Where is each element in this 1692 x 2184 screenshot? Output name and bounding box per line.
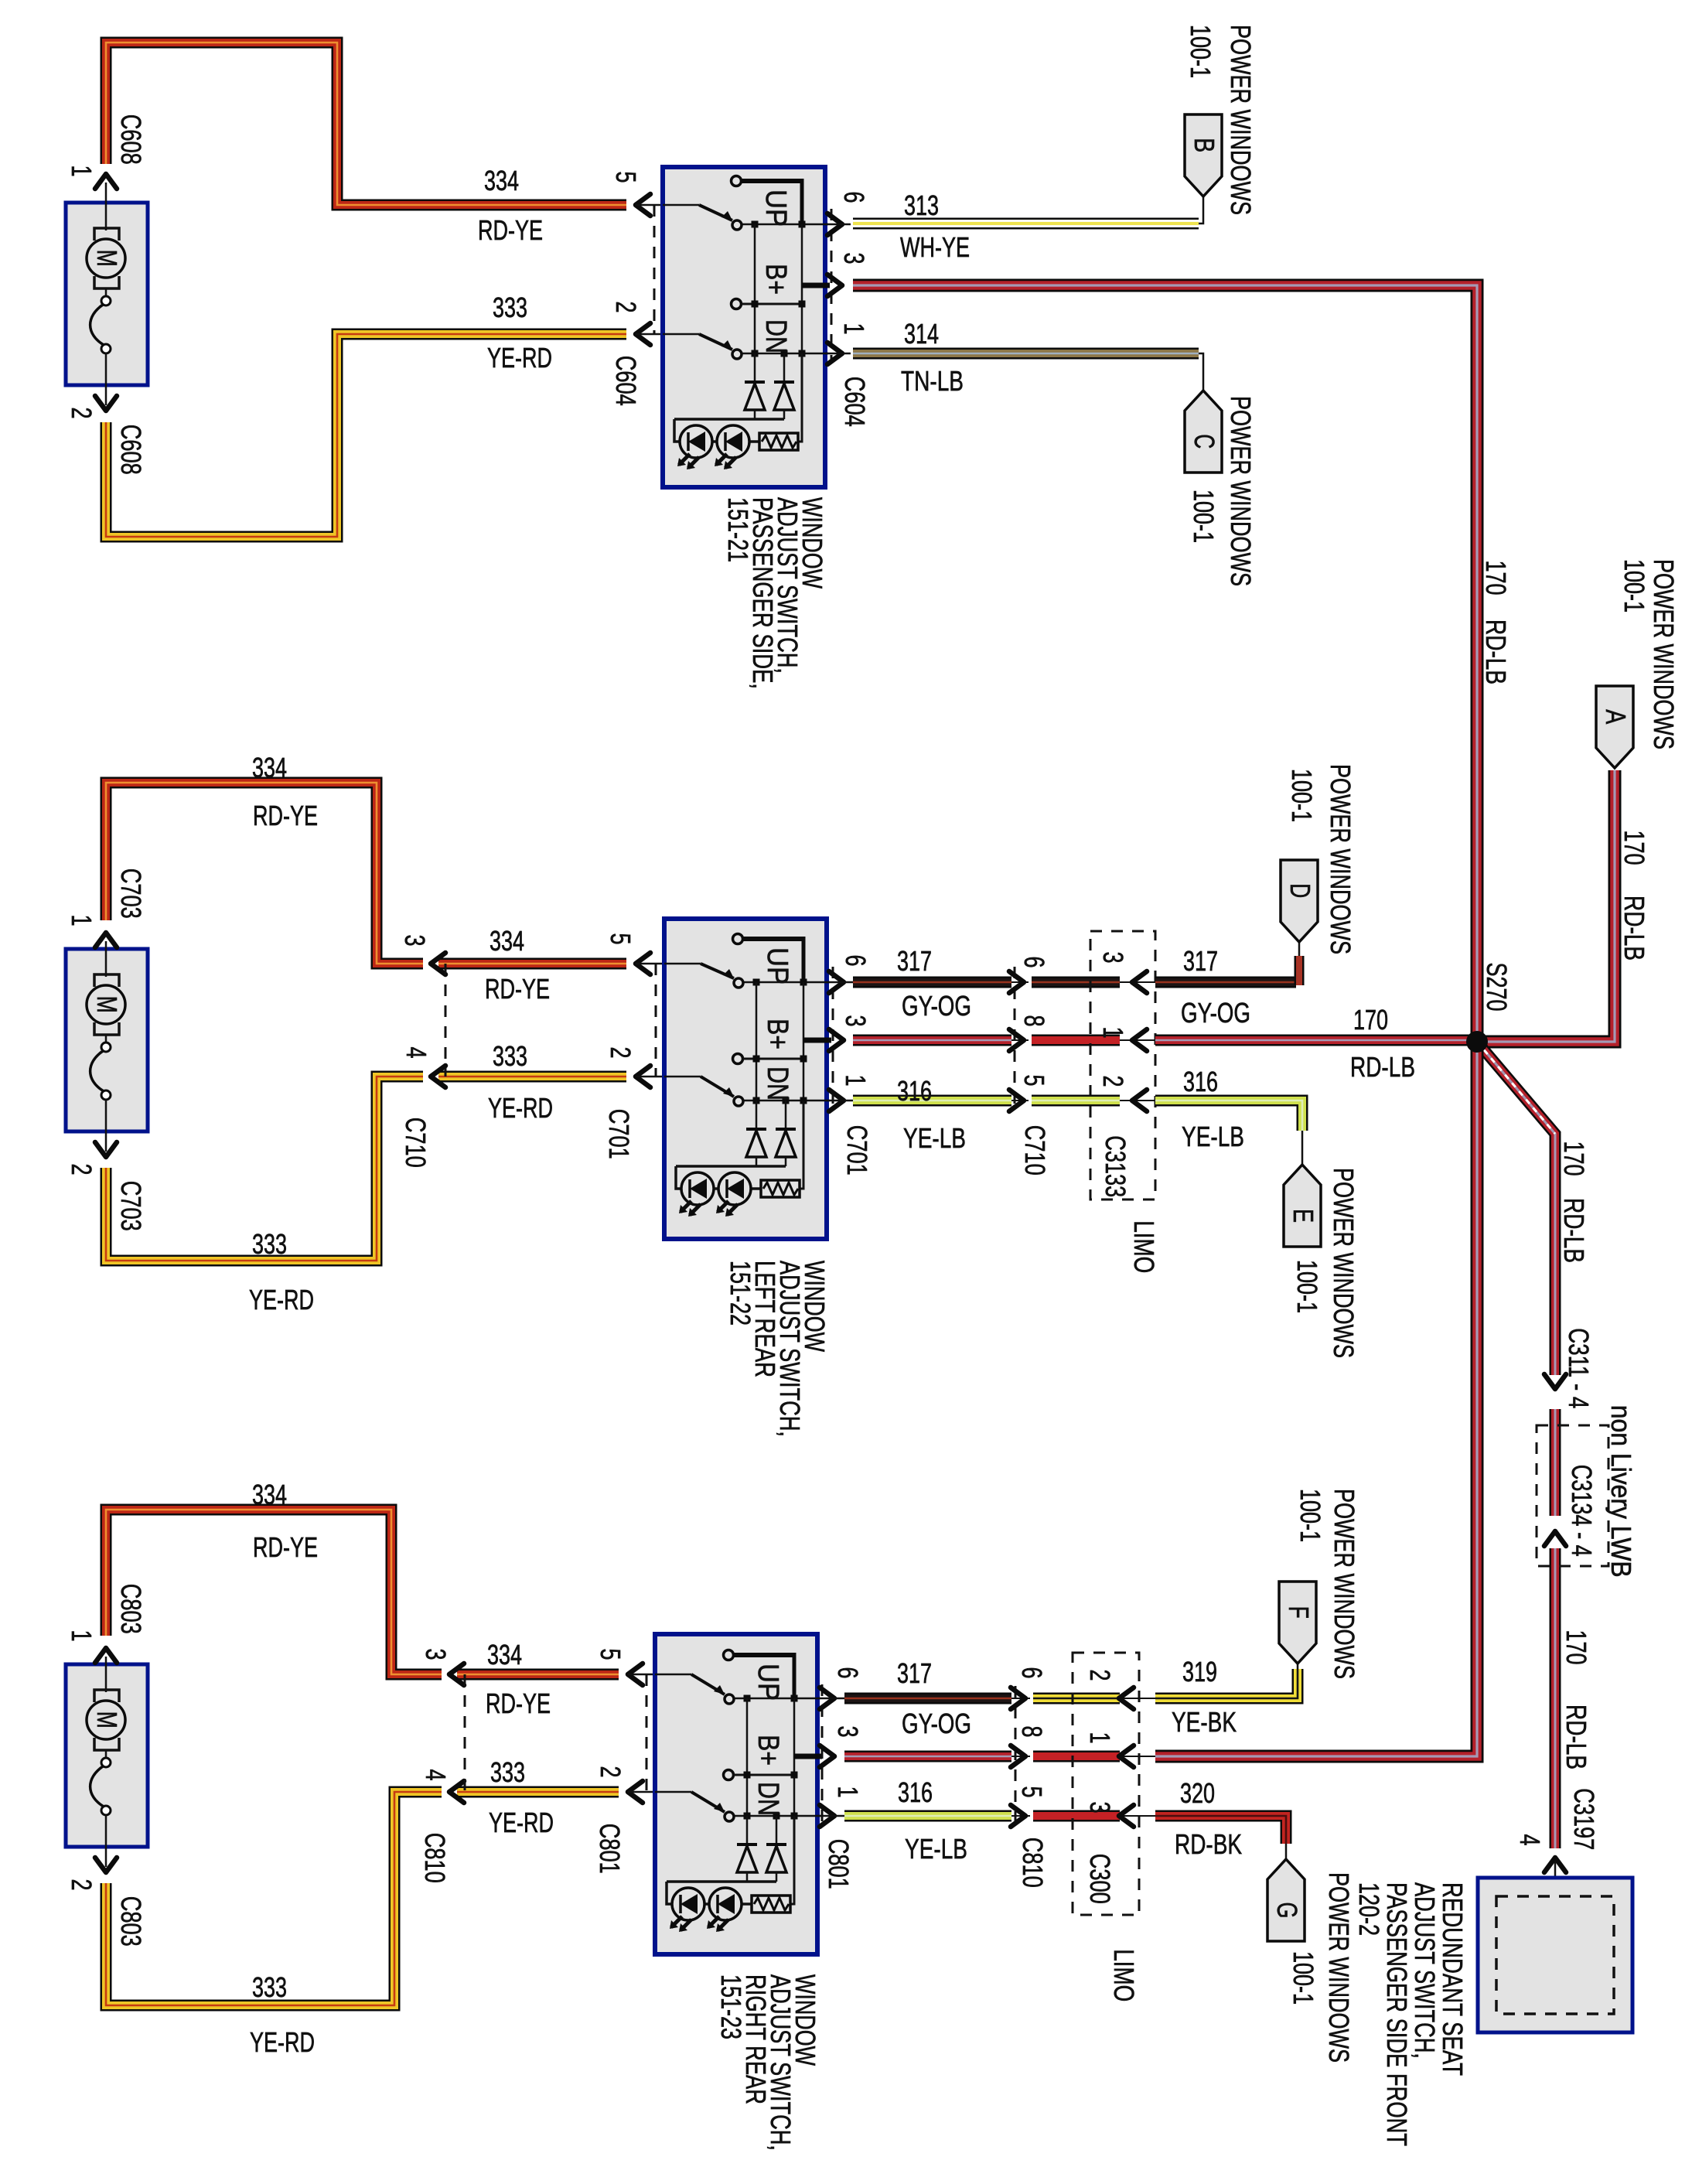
svg-text:YE-RD: YE-RD xyxy=(249,1284,314,1316)
svg-text:100-1: 100-1 xyxy=(1185,25,1216,78)
svg-text:316: 316 xyxy=(898,1776,933,1808)
svg-text:C703: C703 xyxy=(115,1181,147,1231)
svg-text:3: 3 xyxy=(1097,951,1129,963)
svg-text:319: 319 xyxy=(1182,1656,1217,1687)
svg-text:YE-LB: YE-LB xyxy=(903,1122,966,1154)
svg-text:YE-LB: YE-LB xyxy=(1182,1121,1244,1152)
svg-text:6: 6 xyxy=(838,191,870,203)
svg-text:RD-LB: RD-LB xyxy=(1561,1705,1592,1769)
svg-text:C810: C810 xyxy=(1017,1838,1049,1888)
svg-text:100-1: 100-1 xyxy=(1295,1489,1326,1542)
svg-text:POWER WINDOWS: POWER WINDOWS xyxy=(1323,1872,1355,2063)
svg-text:C701: C701 xyxy=(603,1109,635,1159)
svg-text:8: 8 xyxy=(1016,1725,1048,1737)
svg-text:2: 2 xyxy=(1097,1075,1129,1087)
svg-text:M: M xyxy=(91,1711,123,1728)
svg-text:PASSENGER SIDE FRONT: PASSENGER SIDE FRONT xyxy=(1381,1882,1413,2146)
svg-text:120-2: 120-2 xyxy=(1353,1882,1385,1936)
svg-text:DN: DN xyxy=(752,1782,784,1816)
svg-text:C801: C801 xyxy=(823,1839,855,1889)
svg-text:POWER WINDOWS: POWER WINDOWS xyxy=(1648,559,1680,749)
svg-text:DN: DN xyxy=(759,319,792,353)
svg-text:S270: S270 xyxy=(1481,962,1513,1011)
svg-text:non Livery LWB: non Livery LWB xyxy=(1605,1405,1637,1578)
svg-text:C803: C803 xyxy=(115,1584,147,1634)
svg-text:C701: C701 xyxy=(841,1125,873,1176)
svg-text:YE-RD: YE-RD xyxy=(488,1092,553,1124)
svg-text:334: 334 xyxy=(487,1639,522,1670)
svg-text:6: 6 xyxy=(1018,956,1050,967)
svg-text:100-1: 100-1 xyxy=(1188,490,1220,543)
svg-text:2: 2 xyxy=(605,1046,636,1058)
svg-text:GY-OG: GY-OG xyxy=(902,1708,971,1739)
svg-text:RD-LB: RD-LB xyxy=(1619,896,1650,961)
svg-text:UP: UP xyxy=(752,1664,784,1701)
svg-text:C: C xyxy=(1189,434,1220,449)
svg-text:3: 3 xyxy=(840,1015,872,1026)
svg-text:6: 6 xyxy=(840,954,872,966)
svg-text:UP: UP xyxy=(761,947,793,985)
svg-text:UP: UP xyxy=(759,189,792,227)
svg-text:RD-YE: RD-YE xyxy=(486,1687,551,1719)
svg-text:4: 4 xyxy=(1514,1834,1546,1845)
svg-text:C311 - 4: C311 - 4 xyxy=(1563,1328,1595,1408)
svg-text:3: 3 xyxy=(420,1648,452,1660)
svg-text:2: 2 xyxy=(1084,1669,1116,1681)
svg-text:5: 5 xyxy=(595,1648,626,1660)
svg-text:B+: B+ xyxy=(761,1019,793,1049)
svg-text:333: 333 xyxy=(252,1228,287,1260)
svg-text:C608: C608 xyxy=(115,114,147,165)
svg-text:100-1: 100-1 xyxy=(1286,769,1318,822)
svg-text:C803: C803 xyxy=(115,1896,147,1947)
svg-text:333: 333 xyxy=(493,1040,527,1072)
svg-text:C710: C710 xyxy=(400,1118,432,1168)
svg-text:POWER WINDOWS: POWER WINDOWS xyxy=(1329,1489,1360,1679)
svg-text:1: 1 xyxy=(66,914,97,926)
svg-text:1: 1 xyxy=(840,1074,872,1086)
svg-text:POWER WINDOWS: POWER WINDOWS xyxy=(1225,25,1257,215)
svg-text:334: 334 xyxy=(490,925,524,957)
svg-text:GY-OG: GY-OG xyxy=(1181,997,1250,1029)
svg-text:170: 170 xyxy=(1480,560,1512,595)
svg-text:1: 1 xyxy=(1084,1732,1116,1743)
svg-text:C3133: C3133 xyxy=(1100,1135,1131,1197)
svg-text:1: 1 xyxy=(1097,1026,1129,1038)
svg-text:100-1: 100-1 xyxy=(1288,1951,1319,2005)
svg-text:333: 333 xyxy=(490,1756,525,1788)
svg-text:5: 5 xyxy=(1016,1786,1048,1797)
svg-text:C801: C801 xyxy=(594,1824,626,1874)
svg-text:4: 4 xyxy=(401,1046,432,1058)
svg-text:POWER WINDOWS: POWER WINDOWS xyxy=(1225,396,1257,586)
svg-text:ADJUST SWITCH,: ADJUST SWITCH, xyxy=(1409,1882,1441,2059)
svg-text:334: 334 xyxy=(484,165,519,196)
svg-text:314: 314 xyxy=(904,318,939,350)
svg-text:3: 3 xyxy=(399,934,431,946)
svg-text:2: 2 xyxy=(595,1766,626,1777)
svg-text:1: 1 xyxy=(832,1786,864,1797)
svg-text:4: 4 xyxy=(420,1769,452,1780)
svg-text:170: 170 xyxy=(1561,1629,1592,1664)
svg-text:TN-LB: TN-LB xyxy=(901,365,964,397)
svg-text:5: 5 xyxy=(605,933,636,944)
svg-text:RD-YE: RD-YE xyxy=(478,214,543,246)
svg-text:316: 316 xyxy=(897,1075,932,1107)
svg-text:YE-BK: YE-BK xyxy=(1172,1706,1237,1738)
svg-text:170: 170 xyxy=(1619,830,1650,865)
svg-text:5: 5 xyxy=(1018,1074,1050,1086)
svg-text:2: 2 xyxy=(66,407,97,418)
svg-text:151-23: 151-23 xyxy=(715,1974,747,2039)
svg-text:POWER WINDOWS: POWER WINDOWS xyxy=(1328,1168,1359,1358)
svg-text:RD-LB: RD-LB xyxy=(1350,1051,1415,1083)
svg-text:C604: C604 xyxy=(610,356,642,406)
svg-text:RD-YE: RD-YE xyxy=(253,1531,318,1563)
svg-text:WH-YE: WH-YE xyxy=(900,231,970,263)
svg-text:316: 316 xyxy=(1183,1066,1218,1097)
svg-text:334: 334 xyxy=(252,752,287,783)
svg-text:3: 3 xyxy=(1084,1801,1116,1813)
svg-text:LIMO: LIMO xyxy=(1128,1220,1160,1273)
svg-text:313: 313 xyxy=(904,189,939,221)
svg-text:151-21: 151-21 xyxy=(722,497,754,562)
svg-text:RD-YE: RD-YE xyxy=(253,800,318,831)
svg-text:8: 8 xyxy=(1018,1015,1050,1026)
svg-text:334: 334 xyxy=(252,1479,287,1510)
svg-text:C703: C703 xyxy=(115,868,147,919)
svg-text:RD-LB: RD-LB xyxy=(1558,1198,1590,1263)
svg-text:C300: C300 xyxy=(1084,1854,1116,1904)
svg-text:YE-RD: YE-RD xyxy=(487,342,552,374)
svg-text:YE-LB: YE-LB xyxy=(905,1833,967,1865)
svg-text:E: E xyxy=(1288,1209,1319,1223)
svg-text:RD-LB: RD-LB xyxy=(1480,619,1512,684)
svg-text:G: G xyxy=(1271,1902,1303,1918)
svg-text:3: 3 xyxy=(838,252,870,264)
svg-text:GY-OG: GY-OG xyxy=(902,990,971,1022)
svg-text:M: M xyxy=(91,996,123,1013)
svg-text:A: A xyxy=(1600,709,1632,724)
svg-text:B+: B+ xyxy=(752,1735,784,1766)
svg-text:YE-RD: YE-RD xyxy=(250,2026,315,2058)
svg-text:C3197: C3197 xyxy=(1568,1788,1600,1850)
svg-text:151-22: 151-22 xyxy=(725,1261,756,1326)
svg-text:F: F xyxy=(1283,1606,1315,1619)
svg-text:170: 170 xyxy=(1353,1004,1388,1036)
svg-text:DN: DN xyxy=(761,1066,793,1101)
svg-text:C3134 - 4: C3134 - 4 xyxy=(1566,1465,1598,1557)
svg-text:5: 5 xyxy=(610,171,642,183)
svg-text:1: 1 xyxy=(66,165,97,176)
svg-text:170: 170 xyxy=(1558,1141,1590,1176)
svg-text:YE-RD: YE-RD xyxy=(489,1807,554,1838)
svg-text:3: 3 xyxy=(832,1725,864,1737)
svg-text:D: D xyxy=(1284,883,1316,898)
svg-text:B+: B+ xyxy=(759,264,792,295)
svg-text:317: 317 xyxy=(897,1657,932,1689)
svg-text:POWER WINDOWS: POWER WINDOWS xyxy=(1325,764,1356,954)
svg-text:RD-YE: RD-YE xyxy=(485,973,550,1005)
svg-text:100-1: 100-1 xyxy=(1619,559,1650,613)
svg-text:6: 6 xyxy=(832,1667,864,1678)
svg-text:C810: C810 xyxy=(419,1833,451,1883)
svg-text:REDUNDANT SEAT: REDUNDANT SEAT xyxy=(1437,1882,1469,2076)
svg-text:C604: C604 xyxy=(839,377,871,427)
svg-text:RD-BK: RD-BK xyxy=(1175,1828,1242,1860)
svg-text:B: B xyxy=(1189,138,1220,152)
svg-text:2: 2 xyxy=(610,301,642,312)
svg-text:C608: C608 xyxy=(115,425,147,475)
svg-text:317: 317 xyxy=(897,945,932,977)
svg-text:2: 2 xyxy=(66,1879,97,1890)
svg-text:C710: C710 xyxy=(1019,1125,1051,1176)
svg-text:1: 1 xyxy=(838,322,870,334)
svg-text:333: 333 xyxy=(493,292,527,323)
svg-text:317: 317 xyxy=(1183,945,1218,977)
svg-text:6: 6 xyxy=(1016,1667,1048,1678)
svg-text:M: M xyxy=(91,250,123,267)
svg-text:LIMO: LIMO xyxy=(1108,1949,1140,2001)
svg-text:2: 2 xyxy=(66,1163,97,1175)
svg-text:1: 1 xyxy=(66,1629,97,1641)
svg-text:320: 320 xyxy=(1180,1777,1215,1809)
svg-text:100-1: 100-1 xyxy=(1291,1260,1323,1313)
svg-text:333: 333 xyxy=(252,1971,287,2003)
